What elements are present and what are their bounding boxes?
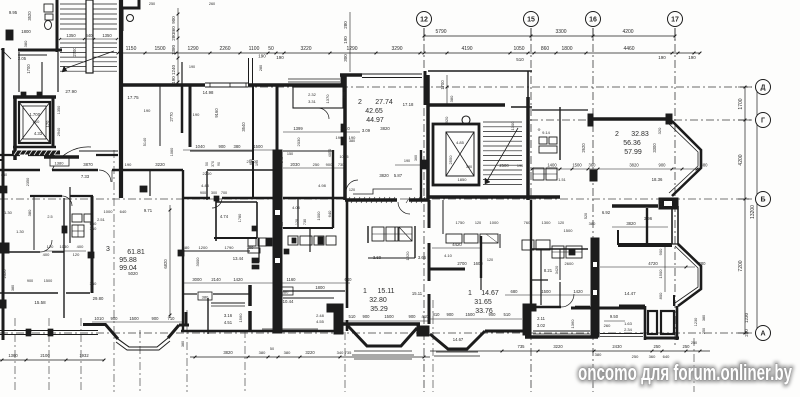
dim row 1010 900 1500 900 710 <box>92 316 183 322</box>
black riser boxes left wall <box>0 243 9 308</box>
svg-text:2190: 2190 <box>247 159 257 164</box>
svg-text:1700: 1700 <box>738 98 744 109</box>
svg-text:640: 640 <box>663 354 670 359</box>
svg-text:380: 380 <box>23 40 28 47</box>
svg-text:190: 190 <box>258 54 266 59</box>
door jambs center <box>214 196 289 254</box>
svg-text:4.33: 4.33 <box>34 131 43 136</box>
svg-text:42.65: 42.65 <box>365 108 383 115</box>
boxed 380 left <box>198 292 212 300</box>
svg-text:900: 900 <box>447 312 455 317</box>
svg-text:360: 360 <box>171 26 176 34</box>
svg-text:380: 380 <box>282 290 289 295</box>
pier x421 bottom <box>417 326 429 336</box>
svg-text:380: 380 <box>595 352 602 357</box>
svg-text:1050: 1050 <box>513 46 524 52</box>
grid axis line 17 vertical <box>674 28 676 345</box>
dim row bottom mid <box>190 347 430 358</box>
svg-text:1560: 1560 <box>238 313 243 323</box>
room label 1 15.11 32.80 35.29 <box>363 288 395 313</box>
svg-text:2.05: 2.05 <box>18 56 27 61</box>
wall vertical x183 <box>182 170 184 331</box>
svg-text:3820: 3820 <box>380 126 390 131</box>
dim row y294 (680 1500 1420) <box>505 289 590 295</box>
wall vertical x345 upper <box>343 75 347 200</box>
window in wall y84 <box>205 83 248 87</box>
pier diag right of bay-1 <box>168 312 189 338</box>
wall y170 horizontal left <box>0 169 183 171</box>
dim 190 x407 <box>395 159 420 165</box>
pier diag left of bay-1 <box>105 324 118 339</box>
wall y293 left loggia <box>0 292 90 294</box>
svg-text:380: 380 <box>449 95 454 102</box>
dim 4420 row y248 <box>432 242 480 248</box>
dim 1350 640 1350 in stair <box>59 33 118 40</box>
svg-text:3: 3 <box>106 246 110 253</box>
wall corner x425 y71-105 <box>424 71 427 105</box>
wall y202 x216-257 <box>216 202 257 238</box>
svg-text:1290: 1290 <box>346 46 357 52</box>
texts right column 900 1500 800 4720 380 <box>600 247 706 299</box>
svg-text:730: 730 <box>303 219 307 225</box>
svg-text:50: 50 <box>205 162 209 166</box>
svg-text:190: 190 <box>342 92 346 98</box>
stair-1 stringer <box>86 0 93 73</box>
stair-1 walk line <box>62 51 114 72</box>
svg-text:1290: 1290 <box>187 46 198 52</box>
wall column x672 between bays <box>672 206 678 244</box>
svg-text:3.02: 3.02 <box>537 323 546 328</box>
svg-text:3.16: 3.16 <box>224 313 233 318</box>
vertical dim stack x350 <box>343 12 350 72</box>
svg-text:190: 190 <box>658 55 666 60</box>
svg-text:380: 380 <box>181 341 185 347</box>
svg-text:250: 250 <box>632 354 639 359</box>
svg-text:9160: 9160 <box>214 108 219 118</box>
svg-text:190: 190 <box>255 160 259 166</box>
svg-text:3.31: 3.31 <box>308 99 317 104</box>
svg-text:1.51: 1.51 <box>558 178 565 182</box>
svg-text:1360: 1360 <box>570 319 575 329</box>
wall y155 fragments <box>0 154 118 156</box>
svg-text:710: 710 <box>168 316 176 321</box>
svg-text:1500: 1500 <box>541 289 551 294</box>
svg-text:280: 280 <box>259 65 263 71</box>
svg-text:1150: 1150 <box>126 46 137 52</box>
dim 120 1030 400 <box>43 244 86 257</box>
svg-text:1500: 1500 <box>465 312 475 317</box>
stair-1 treads lower flight <box>60 43 117 71</box>
svg-text:5.87: 5.87 <box>394 173 403 178</box>
texts 3870 7.33 190 3220 <box>81 162 166 179</box>
wall vertical x481 y236-278 <box>480 236 482 278</box>
svg-text:4.51: 4.51 <box>224 320 233 325</box>
texts 2500 190 1300 <box>499 121 523 168</box>
texts left column 11.30 380 <box>2 209 32 216</box>
kitchen counters y234 x446-500 <box>446 234 498 243</box>
pier right B-line <box>659 198 678 209</box>
wall y331 x485-524 <box>485 330 524 333</box>
svg-text:9.50: 9.50 <box>610 314 619 319</box>
svg-text:1800: 1800 <box>315 285 325 290</box>
svg-text:800: 800 <box>658 292 663 299</box>
wall vertical x618 y230-245 <box>617 230 619 245</box>
dim 2770 vertical <box>169 112 174 122</box>
svg-text:2770: 2770 <box>169 112 174 122</box>
wall y280 x531-560 <box>531 279 548 281</box>
text 17.75 9160 190 <box>127 95 219 118</box>
wall corridor bottom y84 left part <box>121 83 205 87</box>
svg-text:2.48: 2.48 <box>316 313 325 318</box>
svg-text:4.85: 4.85 <box>456 140 465 145</box>
partition x310 y228-252 <box>309 228 311 252</box>
room label 1 14.67 31.65 33.76 <box>468 290 499 315</box>
svg-text:3.65: 3.65 <box>418 255 427 260</box>
room label 3 61.81 95.88 99.04 <box>106 246 145 272</box>
wall y298 x283-334 thin <box>283 297 334 299</box>
fixtures kitchen row x533 <box>533 168 566 182</box>
svg-text:2430: 2430 <box>612 344 622 349</box>
text 6.92 <box>602 210 611 215</box>
door arc room3 top <box>62 196 72 206</box>
text 380 vertical at pier <box>181 341 185 347</box>
svg-text:2.5: 2.5 <box>47 215 52 219</box>
svg-text:700: 700 <box>221 191 227 195</box>
svg-text:4.48: 4.48 <box>201 183 210 188</box>
boxed label 1380 <box>50 158 69 166</box>
partition x450/x465 y200-234 <box>443 200 500 248</box>
svg-text:760: 760 <box>524 220 531 225</box>
svg-text:17.75: 17.75 <box>127 95 139 100</box>
svg-text:1790: 1790 <box>225 245 235 250</box>
wall y245 x618-672 hatched <box>618 243 672 247</box>
svg-text:1200: 1200 <box>199 245 209 250</box>
svg-text:900: 900 <box>326 162 333 167</box>
svg-text:680: 680 <box>511 289 519 294</box>
partition x298 y198-228 <box>297 198 299 228</box>
texts kitchen cluster <box>90 208 153 231</box>
svg-text:61.81: 61.81 <box>127 249 145 256</box>
svg-text:А: А <box>760 331 765 338</box>
balustrade below stair-1 <box>79 150 118 152</box>
door arc B wall <box>398 202 410 214</box>
svg-text:1000: 1000 <box>490 220 500 225</box>
dim row y169 right (1400 1500 360 3820 900 380) <box>531 163 709 171</box>
svg-text:640: 640 <box>327 210 332 217</box>
svg-text:2030: 2030 <box>296 137 301 147</box>
svg-text:1: 1 <box>468 290 472 297</box>
bay-A right upper <box>669 121 701 196</box>
svg-text:1040: 1040 <box>195 144 205 149</box>
svg-text:14.67: 14.67 <box>481 290 499 297</box>
grid axis line G horizontal <box>530 119 752 121</box>
svg-text:810: 810 <box>433 312 441 317</box>
svg-text:190: 190 <box>125 162 132 167</box>
svg-text:2260: 2260 <box>219 46 230 52</box>
svg-text:3.09: 3.09 <box>362 128 371 133</box>
svg-text:14.98: 14.98 <box>203 90 214 95</box>
grid axis line D horizontal <box>228 86 752 88</box>
loggia window 1 <box>648 311 657 334</box>
svg-text:4.10: 4.10 <box>444 253 453 258</box>
jamb block x421 <box>414 155 428 169</box>
svg-text:360: 360 <box>414 155 418 161</box>
grid bubble 12 <box>417 12 432 27</box>
svg-text:1500: 1500 <box>384 314 394 319</box>
dim row bottom left (1360 2100 1932) <box>0 353 105 361</box>
svg-text:14.47: 14.47 <box>624 291 636 296</box>
svg-text:5020: 5020 <box>128 271 138 276</box>
kitchen fixtures left <box>72 214 92 237</box>
black column box grid16 <box>590 170 597 181</box>
svg-text:1010: 1010 <box>94 316 104 321</box>
svg-text:2030: 2030 <box>290 162 300 167</box>
dim row y318 mid (510 900 1500 900 410) <box>344 314 430 321</box>
svg-text:700: 700 <box>247 245 254 250</box>
svg-text:2700: 2700 <box>72 47 77 57</box>
svg-text:260: 260 <box>604 323 611 328</box>
dim row 2030 250 900 y166 <box>205 159 345 168</box>
svg-text:250: 250 <box>691 341 697 345</box>
svg-text:3220: 3220 <box>155 162 165 167</box>
grid bubble 16 <box>586 12 601 27</box>
svg-text:4.74: 4.74 <box>220 214 229 219</box>
svg-text:95.88: 95.88 <box>119 257 137 264</box>
wall elevator-1 shaft top <box>13 95 56 99</box>
svg-text:190: 190 <box>276 55 284 60</box>
wall B-line y197 x428-560 <box>428 195 560 199</box>
bay-1 rails <box>116 338 170 350</box>
door arc room1 left <box>346 180 358 192</box>
wall bottom y331 mid <box>181 329 335 331</box>
svg-text:210: 210 <box>33 119 40 124</box>
elevator E2 car with cross <box>446 132 474 182</box>
svg-text:7200: 7200 <box>738 260 744 271</box>
svg-text:1500: 1500 <box>572 163 582 168</box>
svg-text:27.74: 27.74 <box>375 99 393 106</box>
svg-text:260: 260 <box>209 2 215 6</box>
partition x34 y197-250 <box>33 197 35 250</box>
svg-text:2700: 2700 <box>457 261 467 266</box>
svg-text:2940: 2940 <box>57 128 61 136</box>
svg-text:1100: 1100 <box>249 46 260 52</box>
central cross wall grid16 bottom <box>591 238 599 337</box>
svg-text:190: 190 <box>144 108 151 113</box>
grid bubble 17 <box>668 12 683 27</box>
wall vertical x92 <box>91 196 94 293</box>
svg-text:300: 300 <box>343 54 348 62</box>
wall y308 x618-645 <box>618 307 645 310</box>
svg-text:1380: 1380 <box>171 44 176 55</box>
svg-text:4.98: 4.98 <box>318 183 327 188</box>
svg-text:9.95: 9.95 <box>9 10 18 15</box>
svg-text:1.30: 1.30 <box>16 229 25 234</box>
svg-text:1500: 1500 <box>129 316 139 321</box>
dim 3820 y226 and 3.96 <box>589 216 668 227</box>
wall vertical x346 lower <box>346 200 349 331</box>
texts 380 820 2550 <box>444 95 454 165</box>
svg-text:1500: 1500 <box>564 228 574 233</box>
room 3.16 4.51 walls <box>208 298 245 334</box>
svg-text:900: 900 <box>200 191 206 195</box>
wall kitchen top y196 <box>30 195 93 197</box>
svg-text:280: 280 <box>343 21 348 29</box>
svg-text:1160: 1160 <box>286 277 296 282</box>
wall y306 x535-561 and x575-590 <box>535 306 590 309</box>
svg-text:2620: 2620 <box>581 143 586 153</box>
svg-text:380: 380 <box>702 315 706 321</box>
svg-text:1370: 1370 <box>325 94 330 104</box>
svg-text:1500: 1500 <box>658 269 663 279</box>
svg-text:360: 360 <box>589 163 597 168</box>
svg-text:340: 340 <box>337 350 344 355</box>
wall left edge <box>0 48 3 340</box>
svg-text:1350: 1350 <box>102 33 112 38</box>
svg-text:Φ: Φ <box>538 128 541 132</box>
svg-text:380: 380 <box>90 281 97 286</box>
window lines y80 x290-340 <box>288 79 340 82</box>
grid bubble 15 <box>524 12 539 27</box>
wc fixtures cluster 2 <box>288 236 336 245</box>
texts 2620 3300 320 18.36 <box>581 127 663 182</box>
wall G-line y119 x590-672 <box>588 114 672 126</box>
wall y206 x612-660 <box>612 204 658 208</box>
svg-text:1: 1 <box>363 288 367 295</box>
svg-text:120: 120 <box>349 188 355 192</box>
partition x415 y226-258 <box>368 226 415 258</box>
window band y75 x362-422 <box>362 74 422 78</box>
svg-text:860: 860 <box>541 46 550 52</box>
svg-text:1240: 1240 <box>171 64 176 75</box>
sill lines x600-643 <box>600 334 643 337</box>
svg-text:27.90: 27.90 <box>65 89 77 94</box>
partition x70 y187-243 <box>69 187 71 243</box>
svg-text:2.34: 2.34 <box>624 327 633 332</box>
svg-text:3300: 3300 <box>555 29 566 35</box>
wall y252 left <box>0 251 64 253</box>
svg-text:4050: 4050 <box>328 149 332 157</box>
wall y151 x190-253 thin <box>190 150 333 152</box>
door arc left 1 <box>52 147 91 170</box>
dim row 1399 1710 y130 <box>283 126 360 132</box>
dimension column right inner (1700,4200,7200) <box>738 86 752 337</box>
text 15.11 small <box>412 291 423 296</box>
svg-text:3540: 3540 <box>241 122 246 132</box>
svg-text:380: 380 <box>259 350 266 355</box>
door swing diag top-left <box>1 49 11 59</box>
grid bubble B <box>756 192 771 207</box>
wall bottom y337 x525-598 <box>525 335 598 339</box>
room label 2 32.83 56.36 57.99 <box>615 131 649 156</box>
partition x160 y85-146 <box>159 85 161 146</box>
partition x216 y200-241 <box>215 200 217 241</box>
grid axis line B horizontal <box>0 198 752 200</box>
partition x259 y238-262 <box>258 238 260 262</box>
fixture cluster x522-586 y240 <box>522 240 582 258</box>
dimension row top second <box>117 46 702 62</box>
svg-text:1399: 1399 <box>293 126 303 131</box>
svg-text:380: 380 <box>27 209 32 216</box>
partition x150 y171-196 <box>149 171 151 196</box>
svg-text:6.92: 6.92 <box>602 210 611 215</box>
bay-3 bottom bay <box>430 331 485 356</box>
svg-text:900: 900 <box>363 314 371 319</box>
partition x541 y247-305 <box>540 249 542 305</box>
svg-text:4200: 4200 <box>622 29 633 35</box>
partition x395 y226-258 <box>394 227 396 241</box>
wall step top with column <box>122 0 139 31</box>
svg-text:14.67: 14.67 <box>453 337 464 342</box>
svg-text:17.18: 17.18 <box>403 102 414 107</box>
svg-text:2: 2 <box>358 99 362 106</box>
svg-text:4.08: 4.08 <box>292 205 301 210</box>
svg-text:1700: 1700 <box>26 64 31 74</box>
svg-text:735: 735 <box>345 350 352 355</box>
svg-text:400: 400 <box>77 244 84 249</box>
svg-text:2: 2 <box>615 131 619 138</box>
dim 1700 vertical x447 <box>440 75 448 105</box>
svg-text:15: 15 <box>527 17 535 24</box>
vertical dim stack x178 <box>171 8 179 84</box>
svg-text:380: 380 <box>699 261 707 266</box>
svg-text:10.55: 10.55 <box>340 155 349 159</box>
grid bubble A <box>756 326 771 341</box>
svg-text:2.11: 2.11 <box>537 316 546 321</box>
svg-text:18.36: 18.36 <box>652 177 663 182</box>
svg-text:1800: 1800 <box>561 46 572 52</box>
svg-text:190: 190 <box>517 164 523 168</box>
svg-text:50: 50 <box>270 347 274 351</box>
svg-text:3290: 3290 <box>391 46 402 52</box>
svg-text:380: 380 <box>349 139 355 143</box>
svg-text:190: 190 <box>193 112 200 117</box>
svg-text:2140: 2140 <box>211 277 221 282</box>
svg-text:15.11: 15.11 <box>412 291 423 296</box>
wall y324 x83-106 <box>83 323 106 326</box>
svg-text:17: 17 <box>671 17 679 24</box>
kitchen fixtures right of core <box>372 227 412 241</box>
svg-text:730: 730 <box>338 163 344 167</box>
wall vertical x421 <box>420 150 422 200</box>
svg-text:10.44: 10.44 <box>283 299 294 304</box>
svg-text:1620: 1620 <box>405 251 410 261</box>
pier x523-535 <box>523 304 536 335</box>
svg-text:280: 280 <box>171 33 176 41</box>
texts 5020 380 29.80 15.58 2020 <box>2 269 138 305</box>
svg-text:1500: 1500 <box>154 46 165 52</box>
wall vertical x253 <box>252 85 254 160</box>
svg-text:2350: 2350 <box>26 178 30 186</box>
svg-text:640: 640 <box>120 209 127 214</box>
svg-text:Б: Б <box>760 197 765 204</box>
svg-text:900: 900 <box>658 248 663 255</box>
svg-text:35.29: 35.29 <box>370 306 388 313</box>
dim 2700 vertical in stair <box>72 47 77 57</box>
svg-text:32.83: 32.83 <box>631 131 649 138</box>
wall y291 right segment <box>283 290 345 292</box>
wall stair-1 right <box>119 0 123 198</box>
texts 3.60 1620 3.65 5.87 <box>349 173 427 260</box>
vertical texts right of elevator <box>57 106 61 136</box>
partition y249 x532-590 <box>532 248 588 250</box>
svg-text:430: 430 <box>1 173 7 177</box>
svg-text:1932: 1932 <box>79 353 89 358</box>
svg-text:1780: 1780 <box>238 214 242 222</box>
svg-text:1800: 1800 <box>21 29 31 34</box>
flue stub x250 above wall <box>249 58 253 85</box>
svg-text:4200: 4200 <box>738 154 744 165</box>
svg-text:1420: 1420 <box>573 289 583 294</box>
